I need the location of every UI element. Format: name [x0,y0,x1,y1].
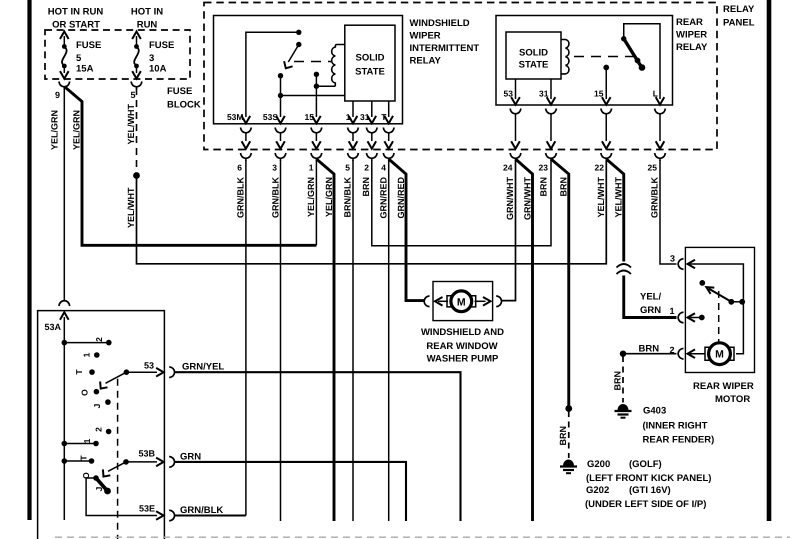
relay switch arm [288,45,299,63]
svg-text:STATE: STATE [355,67,385,78]
contact 15 node [314,72,319,77]
label WINDSHIELD AND REAR WINDOW WASHER PUMP [421,327,504,365]
solid state module box rear [506,32,561,79]
svg-text:(GOLF): (GOLF) [629,459,662,470]
svg-text:5: 5 [345,163,350,173]
ground G403 [618,405,628,411]
wire YEL/GRN to rear wiper motor pin 1 [624,276,677,318]
switch section1 junction to position 2 [62,340,112,346]
svg-text:REAR WIPER: REAR WIPER [693,381,754,392]
svg-text:HOT IN: HOT IN [131,7,163,18]
svg-text:L: L [653,89,658,99]
svg-text:BRN: BRN [539,177,549,197]
svg-text:YEL/WHT: YEL/WHT [126,104,136,145]
svg-text:BRN: BRN [639,344,660,355]
svg-text:SOLID: SOLID [519,48,548,59]
svg-text:YEL/WHT: YEL/WHT [614,177,624,218]
rear wiper relay U2 box [496,16,673,106]
svg-text:3: 3 [670,254,675,264]
motor park switch arm nodes [728,299,745,305]
svg-text:53B: 53B [138,449,155,459]
svg-text:GRN/RED: GRN/RED [379,177,389,219]
output 53 connector cup [169,367,174,378]
wire GRN/BLK pin3 down [280,160,282,521]
wiper switch S1 box [38,311,165,539]
output 53 wire and arrow [126,368,163,377]
svg-text:J: J [92,403,102,408]
wire GRN/WHT pin24 thick branch down [516,159,533,521]
wire BRN to rear motor pin 2 [620,351,677,357]
svg-text:4: 4 [381,163,386,173]
relay pin connector at x=245.9 [241,116,252,161]
svg-text:HOT IN RUN: HOT IN RUN [48,7,104,18]
mechanical link dashed [294,61,331,63]
right page border [767,0,772,521]
svg-text:(LEFT FRONT KICK PANEL): (LEFT FRONT KICK PANEL) [586,473,711,484]
wire BRN pin2 down and link to pin23 [372,160,551,246]
output 53B connector cup [169,457,174,468]
section1 contact T [89,369,95,375]
wire YEL/GRN pin1 thick branch down [316,159,334,521]
svg-text:1: 1 [669,306,674,316]
output 53E arrow [156,511,164,520]
pump arrow right [475,297,491,306]
rear relay switch pivot node [621,36,626,41]
svg-text:2: 2 [364,163,369,173]
label REAR WIPER MOTOR [693,381,754,405]
label HOT IN RUN [131,7,163,31]
svg-text:REAR FENDER): REAR FENDER) [643,435,715,446]
wire GRN/WHT pin24 thin to washer pump [501,160,516,301]
ground G200 [564,460,574,466]
motor park switch arm with arrowhead [706,287,731,302]
svg-text:(UNDER LEFT SIDE OF I/P): (UNDER LEFT SIDE OF I/P) [585,499,706,510]
label WINDSHIELD WIPER INTERMITTENT RELAY [410,18,480,67]
wire YEL/GRN pin1 thin down to bus [315,160,317,245]
wire GRN/RED pin4 thin down [388,160,390,521]
rear relay pin connector at x=515.5 [510,97,521,161]
contact 15 node rear [603,65,609,71]
svg-text:RELAY: RELAY [676,42,708,53]
relay pin connector at x=371.8 [366,116,377,161]
wire YEL/WHT solid down and bus to rear relay pin 22 [137,161,607,264]
svg-text:15A: 15A [76,64,94,75]
wire junction to solid state [281,95,345,97]
label YEL/ GRN [640,292,661,317]
svg-text:INTERMITTENT: INTERMITTENT [410,43,480,54]
section2 contact O [93,475,99,481]
rear motor brush left [705,347,710,360]
svg-text:OR START: OR START [52,20,100,31]
svg-text:T: T [74,369,84,375]
relay switch arm arrowhead [284,61,293,68]
wire YEL/WHT pin22 thick branch down [606,159,624,262]
motor brush left [447,296,452,307]
svg-text:BRN: BRN [613,371,623,391]
wire rear terminal 31 drop [550,79,552,99]
wire contact 15 stem [315,74,317,86]
bottom continuation dashed line [55,536,790,538]
motor park switch fixed contact [699,280,705,286]
label FUSE BLOCK [167,86,201,111]
svg-text:BRN: BRN [558,426,568,446]
svg-text:O: O [80,389,90,396]
svg-text:FUSE: FUSE [167,86,192,97]
wire rear terminal 53 drop [515,79,517,99]
svg-text:(GTI 16V): (GTI 16V) [629,485,671,496]
wire coil bottom link [316,85,335,87]
svg-text:GRN: GRN [640,305,661,316]
svg-text:WIPER: WIPER [410,31,441,42]
section1 contact 1 [94,352,100,358]
relay pin connector at x=316.4 [311,116,322,161]
svg-text:22: 22 [595,163,605,173]
wire BRN dashed to G403 [622,356,624,403]
svg-text:GRN/BLK: GRN/BLK [180,505,223,516]
connector below fuse 3 [131,82,142,90]
svg-text:10A: 10A [149,64,167,75]
section1 contact J [105,399,111,405]
motor brush right [471,296,476,307]
rear relay switch arm [624,39,641,66]
motor pin 3 arrow and frame wire [688,260,744,354]
motor pin cups 3 1 2 [678,259,683,360]
svg-text:1: 1 [82,438,92,443]
wire 15 drop [315,86,317,117]
svg-text:REAR: REAR [676,17,703,28]
output 53E connector cup [169,510,174,521]
motor mechanical link dashed [718,291,720,342]
wire YEL/GRN thick from fuse 5 down to bus [64,87,316,246]
washer pump motor symbol [451,291,472,312]
solid state module box [345,25,395,101]
svg-text:REAR WINDOW: REAR WINDOW [426,341,497,352]
wire GRN/BLK from switch 53E to relay pin 6 [175,514,246,516]
relay coil L2 [561,40,569,74]
svg-text:23: 23 [539,163,549,173]
wire BRN pin23 thick branch down to ground splice [551,159,569,409]
wire terminal T drop [388,101,390,117]
svg-text:G200: G200 [587,459,610,470]
svg-text:BRN: BRN [559,177,569,197]
svg-text:YEL/WHT: YEL/WHT [126,187,136,228]
label RELAY PANEL [723,4,755,29]
svg-text:YEL/GRN: YEL/GRN [50,110,60,150]
label SOLID STATE rear [519,48,549,71]
connector cup above switch [59,301,70,306]
svg-text:3: 3 [149,53,154,64]
motor pin 1 arrow and stub [688,313,705,322]
mechanical link dashed rear [574,56,634,58]
svg-text:MOTOR: MOTOR [715,394,750,405]
fuse F5 15A [60,32,69,79]
contact 53S node [278,73,283,78]
rear motor brush right [730,347,735,360]
fuse F5 value label [76,40,101,75]
svg-text:53A: 53A [45,322,62,332]
pump connector cup right [496,296,501,307]
pump connector cup left [424,296,429,307]
relay pin connector at x=353 [348,116,359,161]
wire YEL/GRN thin from fuse 5 to wiper switch 53A [63,89,65,301]
label G403 INNER RIGHT REAR FENDER [643,406,715,446]
svg-text:M: M [457,296,466,308]
rear relay pin connector at x=551 [546,97,557,161]
svg-text:GRN/YEL: GRN/YEL [182,362,224,373]
relay pin connector at x=388.7 [383,116,394,161]
junction node 15 [314,84,319,89]
wire 53S drop [280,96,282,118]
svg-text:6: 6 [237,163,242,173]
svg-text:BRN: BRN [361,177,371,197]
label REAR WIPER RELAY [676,17,708,53]
wire GRN/YEL from switch 53 [175,372,461,521]
rear wiper motor M2 box [685,247,754,372]
section1 contact O [94,389,100,395]
terminal labels 53 31 15 L [504,89,658,99]
svg-text:GRN/BLK: GRN/BLK [236,177,246,218]
label G200 GOLF G202 GTI16V [585,459,711,510]
svg-text:RELAY: RELAY [410,56,442,67]
junction node 53S [278,93,283,98]
svg-text:WINDSHIELD: WINDSHIELD [410,18,470,29]
terminal labels 53M 53S 15 1 31 T [227,112,387,122]
pin labels 3 1 2 [669,254,675,356]
motor pin 2 arrow [688,349,706,358]
relay coil L1 [332,45,345,87]
svg-text:5: 5 [76,53,82,64]
svg-text:YEL/: YEL/ [640,292,661,303]
wire contact to 53S junction [280,76,282,96]
svg-text:BLOCK: BLOCK [167,100,201,111]
output 53B wire and arrow [126,458,164,467]
section2 junction to position T [62,458,95,464]
wire GRN/BLK pin6 down [245,160,247,516]
relay panel dashed box [204,3,717,150]
svg-text:RELAY: RELAY [723,4,755,15]
svg-text:9: 9 [55,90,60,100]
svg-text:2: 2 [94,427,104,432]
svg-text:YEL/WHT: YEL/WHT [596,177,606,218]
wire GRN/BLK pin25 to rear wiper motor pin 3 [660,160,677,264]
svg-text:WIPER: WIPER [676,30,707,41]
svg-text:5: 5 [130,90,135,100]
svg-text:WASHER PUMP: WASHER PUMP [427,354,499,365]
wire from O contact to 53E output [86,478,157,516]
wire rear terminal 15 drop [605,68,607,100]
svg-text:RUN: RUN [137,20,158,31]
svg-text:25: 25 [648,163,658,173]
svg-text:24: 24 [503,163,513,173]
section2 wiper arm [103,459,129,477]
svg-text:PANEL: PANEL [723,18,755,29]
section1 wiper arm [100,369,129,388]
svg-text:GRN/WHT: GRN/WHT [505,177,515,220]
rear motor symbol [709,343,731,365]
switch 53A entry arrow [60,312,69,520]
svg-text:(INNER RIGHT: (INNER RIGHT [643,421,708,432]
svg-text:G202: G202 [586,485,609,496]
pump arrow left [435,297,448,306]
svg-text:GRN/RED: GRN/RED [396,177,406,219]
fuse block dashed box [45,30,190,79]
section2 contact 2 [106,429,112,435]
fuse F3 10A [132,32,141,79]
svg-text:53: 53 [144,361,154,371]
splice node on YEL/WHT wire [133,172,140,179]
svg-text:YEL/GRN: YEL/GRN [306,177,316,217]
svg-text:SOLID: SOLID [355,53,384,64]
svg-text:GRN: GRN [180,452,201,463]
svg-text:YEL/GRN: YEL/GRN [324,177,334,217]
relay switch pivot node [296,42,301,47]
svg-text:53M: 53M [227,112,244,122]
svg-text:FUSE: FUSE [76,40,101,51]
fuse F3 value label [149,40,174,75]
svg-text:GRN/BLK: GRN/BLK [650,177,660,218]
svg-text:FUSE: FUSE [149,40,174,51]
section2 arm to J thick [96,478,111,494]
relay pin connector at x=280.5 [275,116,286,161]
wire YEL/WHT dashed segment from fuse 3 [136,88,138,172]
wire BRN/BLK pin5 down [352,160,354,521]
svg-text:YEL/GRN: YEL/GRN [72,110,82,150]
switch mechanical link dashed [117,379,119,539]
rear relay frame wire to terminal L [624,24,660,99]
svg-text:BRN/BLK: BRN/BLK [343,177,353,218]
svg-text:53E: 53E [139,504,155,514]
inline connector break on YEL/WHT wire [617,264,632,274]
section2 junction to position 1 [62,441,99,447]
svg-text:M: M [715,349,724,361]
svg-text:G403: G403 [643,406,666,417]
wire BRN dashed to G200 [568,411,570,458]
wire 53M riser and top rail [246,32,299,117]
wire terminal 1 drop [352,101,354,117]
svg-text:J: J [94,486,104,491]
connector pin numbers [237,163,657,173]
rear relay pin connector at x=660 [655,97,666,161]
svg-text:2: 2 [94,337,104,342]
svg-text:3: 3 [272,163,277,173]
svg-text:WINDSHIELD AND: WINDSHIELD AND [421,327,504,338]
label HOT IN RUN OR START [48,7,104,31]
washer pump M1 box [433,282,493,321]
wire GRN/RED pin4 thick branch to washer pump [389,159,425,301]
svg-text:GRN/WHT: GRN/WHT [523,177,533,220]
wire terminal 31 drop [371,101,373,117]
svg-text:T: T [79,455,89,461]
node on top rail [296,30,301,35]
connector below fuse 5 [59,82,70,91]
label SOLID STATE [355,53,385,78]
svg-text:1: 1 [82,352,92,357]
splice node on BRN ground wire [565,405,572,412]
svg-text:GRN/BLK: GRN/BLK [271,177,281,218]
windshield wiper intermittent relay U1 box [214,16,403,124]
left page border [27,0,31,520]
rear relay pin connector at x=606.25 [601,97,612,161]
wire GRN from switch 53B [175,462,406,521]
svg-text:STATE: STATE [519,60,549,71]
rear relay arm nodes [635,58,646,71]
svg-text:1: 1 [309,163,314,173]
